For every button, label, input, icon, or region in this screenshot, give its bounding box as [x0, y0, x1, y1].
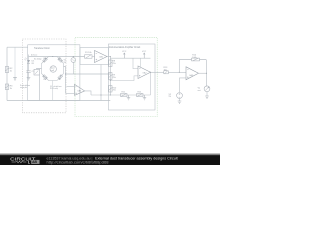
- interior bottom wire: [91, 94, 151, 96]
- svg-text:Instrumentation Amplifier Circ: Instrumentation Amplifier Circuit: [109, 46, 141, 49]
- resistor R14 feedback: [192, 58, 200, 61]
- svg-text:AC Source: AC Source: [31, 53, 38, 56]
- wire bridge left tap: [37, 68, 42, 71]
- wire probe drop: [206, 92, 208, 96]
- ground: [127, 95, 130, 100]
- power rail: [110, 57, 150, 59]
- resistor R1: [85, 55, 93, 58]
- wire OA1 out: [107, 56, 110, 58]
- LED D1: [28, 55, 30, 61]
- wire top feed: [29, 56, 85, 58]
- VCC supply 2: [143, 54, 145, 58]
- wire R1 to OA1: [92, 56, 95, 58]
- source V2: [177, 93, 183, 99]
- resistor Rb2: [137, 94, 144, 97]
- wire amplifier output: [151, 71, 164, 73]
- wire OA4 input: [66, 86, 75, 93]
- divider chain: [109, 57, 111, 96]
- wire OA2 minus input: [133, 58, 138, 68]
- wire OA2 plus input: [110, 76, 138, 81]
- instrumentation amplifier box: [108, 44, 155, 110]
- svg-text:Transducer Circuit: Transducer Circuit: [34, 47, 50, 50]
- svg-text:http://circuitlab.com/c/b8faf6: http://circuitlab.com/c/b8faf68p368: [47, 161, 109, 165]
- resistor R13: [164, 71, 169, 74]
- resistor bridge TR: [58, 58, 63, 63]
- op-amp OA1: [95, 51, 108, 63]
- transistor Q1 sense element: [34, 69, 40, 75]
- bridge loop: [42, 57, 64, 81]
- wire feedback loop: [179, 60, 206, 73]
- ground: [205, 96, 209, 99]
- ground: [143, 95, 146, 100]
- transducer element circle: [50, 66, 56, 72]
- wire OA2 power stub: [140, 58, 142, 67]
- capacitor C1: [28, 63, 30, 71]
- svg-text:VCC: VCC: [122, 51, 127, 53]
- svg-text:AB: AB: [32, 160, 37, 164]
- op-amp OA3: [186, 67, 199, 80]
- wire to OA3: [168, 71, 186, 73]
- wire OA4 output: [85, 91, 91, 95]
- transducer circuit dashed enclosure: [22, 39, 66, 113]
- source V1: [71, 58, 76, 63]
- probe output: [204, 86, 210, 92]
- logo AB badge: [31, 160, 39, 164]
- wire mid feed: [66, 73, 111, 75]
- svg-text:AC bridge: AC bridge: [34, 58, 42, 61]
- wire second rail: [14, 47, 16, 77]
- resistor Rg2: [109, 73, 112, 80]
- first stage box: [80, 48, 108, 65]
- VCC supply 1: [123, 54, 125, 58]
- resistor Rg3: [109, 86, 112, 93]
- resistor bridge BL: [43, 75, 48, 80]
- transducer solid box: [28, 45, 80, 101]
- svg-text:VCC: VCC: [142, 51, 147, 53]
- logo resistor glyph: [12, 161, 27, 163]
- resistor bridge BR: [58, 75, 63, 80]
- svg-text:R1 10k: R1 10k: [85, 52, 93, 54]
- wire OA3 plus input: [180, 78, 187, 92]
- wire top link: [7, 46, 28, 48]
- resistor R3 (left rail lower): [5, 84, 8, 90]
- wire OA2 feedback: [150, 72, 152, 95]
- resistor bridge TL: [43, 58, 48, 63]
- ground: [178, 101, 182, 104]
- wire OA3 output: [199, 72, 207, 74]
- resistor Rg1: [109, 60, 112, 67]
- resistor Rb1: [121, 94, 128, 97]
- ground: [27, 78, 31, 81]
- junction node dots: [52, 56, 207, 96]
- resistor R2 (left rail upper): [5, 67, 8, 73]
- instrumentation dashed enclosure (green): [75, 38, 157, 117]
- svg-text:IR LED sense): IR LED sense): [50, 88, 58, 90]
- wire output node: [206, 60, 209, 87]
- op-amp OA4 lower: [75, 84, 85, 95]
- op-amp OA2: [138, 66, 151, 79]
- wire bridge right tap: [64, 67, 66, 94]
- wire left rail V+: [6, 47, 8, 100]
- svg-text:sensor pair: sensor pair: [20, 86, 27, 89]
- ground: [13, 78, 17, 81]
- wire bridge bottom riser: [52, 81, 54, 101]
- wire box C return: [100, 65, 102, 101]
- footer bar: [0, 152, 220, 155]
- wire bottom rail: [7, 100, 110, 102]
- svg-text:out: out: [198, 89, 201, 92]
- wire V2 drop: [179, 98, 181, 101]
- wire sense riser: [39, 75, 41, 101]
